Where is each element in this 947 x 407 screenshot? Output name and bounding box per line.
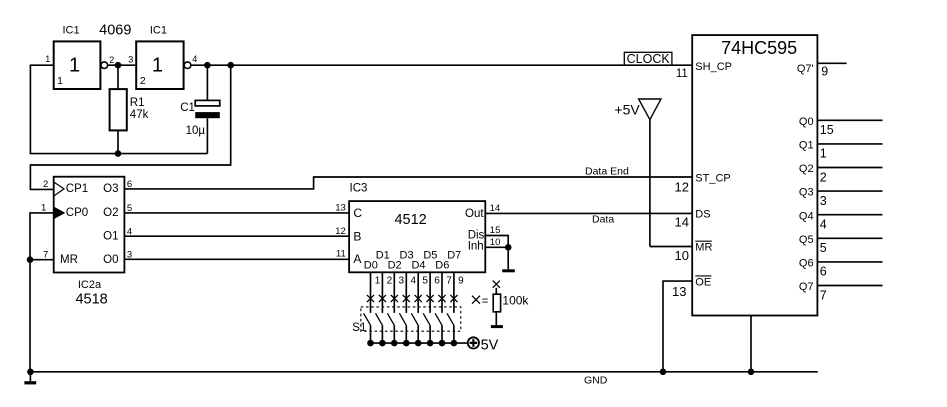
pin name Q7 — [799, 281, 814, 293]
pin number 6 (D5) — [434, 275, 440, 286]
svg-text:4: 4 — [192, 54, 197, 64]
svg-text:Q5: Q5 — [799, 234, 814, 246]
resistor mark x (D3 pulldown) — [403, 295, 410, 302]
wire clock net IC1b output to 74HC595 SH_CP — [191, 64, 692, 66]
svg-text:3: 3 — [399, 275, 405, 286]
svg-text:MR: MR — [695, 242, 712, 254]
node junction 595 GND at ground rail — [748, 369, 755, 376]
pin name Q5 — [799, 234, 814, 246]
label +5V — [614, 102, 640, 118]
74HC595 shift register body — [692, 35, 817, 315]
pin name Out — [465, 208, 484, 220]
switch S1 dashed enclosure — [361, 307, 461, 331]
label IC3 — [350, 182, 368, 194]
wire D3 column lower lead — [405, 325, 407, 343]
svg-text:1: 1 — [375, 275, 381, 286]
pin name Q4 — [799, 210, 814, 222]
svg-text:11: 11 — [336, 249, 346, 260]
pin name CP0 — [66, 207, 88, 219]
resistor mark x (D6 pulldown) — [438, 295, 445, 302]
svg-text:6: 6 — [820, 265, 827, 279]
svg-text:3: 3 — [128, 55, 133, 65]
wire O1 to input B — [124, 235, 349, 237]
pin label D1 — [376, 249, 390, 261]
ground symbol bottom left — [24, 372, 36, 385]
resistor mark x (D5 pulldown) — [427, 295, 434, 302]
pin number 13 (C) — [335, 203, 346, 214]
label 74HC595 — [721, 38, 797, 58]
wire +5V to MR of 74HC595 — [650, 120, 692, 247]
svg-text:2: 2 — [387, 275, 393, 286]
wire O0 to input A — [124, 258, 349, 260]
inverter IC1b output bubble — [184, 62, 191, 69]
wire OE to ground rail — [663, 280, 692, 371]
svg-text:1: 1 — [41, 203, 46, 214]
node junction D6 on +5V rail — [439, 340, 446, 347]
ground symbol at Dis-Inh — [502, 269, 515, 272]
node junction D0 on +5V rail — [367, 340, 374, 347]
svg-text:IC1: IC1 — [150, 25, 167, 37]
pin name O1 — [103, 231, 118, 243]
node junction C1 top on clock net — [204, 62, 211, 69]
pin number 4 (D3) — [410, 275, 416, 286]
node junction Dis-Inh tie — [505, 244, 512, 251]
pin name MR — [60, 254, 78, 266]
svg-text:10: 10 — [675, 248, 689, 263]
svg-text:2: 2 — [140, 75, 146, 87]
pin number 7 (D6) — [446, 275, 452, 286]
inverter IC1b function label 1 — [152, 55, 163, 77]
svg-text:2: 2 — [43, 179, 48, 190]
label IC1 (first inverter) — [62, 25, 79, 37]
svg-text:5: 5 — [422, 275, 428, 286]
wire CP0 MR ground net (left vertical) — [30, 212, 54, 372]
wire Q7 stub — [817, 285, 882, 287]
label IC2a — [78, 279, 102, 291]
switch S1 pole 7 blade — [435, 313, 442, 325]
svg-text:Q7': Q7' — [797, 63, 814, 75]
wire D5 column lower lead — [429, 325, 431, 343]
node junction D7 on +5V rail — [451, 340, 458, 347]
node junction feedback on clock net — [227, 62, 234, 69]
wire D6 column upper lead — [441, 272, 443, 313]
svg-text:B: B — [353, 229, 361, 243]
svg-text:Data: Data — [592, 214, 614, 226]
svg-text:74HC595: 74HC595 — [721, 38, 797, 58]
pin name Q1 — [799, 140, 814, 152]
pin name CP1 — [66, 183, 88, 195]
svg-text:100k: 100k — [502, 293, 529, 307]
pin number 3 (D2) — [399, 275, 405, 286]
svg-text:CLOCK: CLOCK — [627, 52, 671, 66]
svg-text:3: 3 — [820, 194, 827, 208]
svg-text:Q1: Q1 — [799, 140, 814, 152]
wire D5 column upper lead — [429, 272, 431, 313]
svg-text:Q7: Q7 — [799, 281, 814, 293]
label 4512 — [394, 212, 426, 228]
node junction D5 on +5V rail — [427, 340, 434, 347]
wire D4 column lower lead — [417, 325, 419, 343]
node junction OE at ground rail — [660, 369, 667, 376]
inverter IC1a function label 1 — [69, 55, 80, 77]
wire Q4 stub — [817, 214, 882, 216]
inverter IC1a gate number 1 — [57, 75, 63, 87]
net label Data — [592, 214, 614, 226]
svg-text:2: 2 — [109, 55, 114, 65]
pin name Q0 — [799, 116, 814, 128]
wire IC1a output to IC1b input — [108, 64, 137, 66]
svg-text:C: C — [353, 206, 362, 220]
inverter IC1a output bubble — [101, 62, 108, 69]
pin label D4 — [411, 259, 425, 271]
pin number 15 (Q0) — [820, 123, 834, 137]
svg-text:4: 4 — [410, 275, 416, 286]
svg-text:O2: O2 — [103, 207, 118, 219]
svg-text:Data End: Data End — [585, 165, 629, 177]
svg-text:13: 13 — [335, 203, 346, 214]
pin number 13 (OE) — [672, 284, 686, 299]
pin name OE (overline) — [695, 276, 711, 288]
capacitor C1 positive plate — [195, 100, 220, 106]
IC2a 4518 counter body — [54, 177, 125, 273]
pin number 4 (Q4) — [820, 218, 827, 232]
wire D7 column upper lead — [453, 272, 455, 313]
label 4518 — [75, 292, 107, 308]
pin number 10 (MR) — [675, 248, 689, 263]
svg-text:4069: 4069 — [99, 23, 131, 39]
node junction GND rail left end — [27, 369, 34, 376]
+5V supply symbol (circle plus) — [468, 337, 479, 348]
svg-text:7: 7 — [820, 288, 827, 302]
pin number 5 (O2) — [127, 203, 132, 214]
net label Data End — [585, 165, 629, 177]
pin label D3 — [400, 249, 414, 261]
capacitor C1 negative plate — [195, 112, 220, 118]
pin label D7 — [447, 249, 461, 261]
svg-text:Out: Out — [465, 208, 484, 220]
svg-text:4: 4 — [820, 218, 827, 232]
legend x symbol — [472, 296, 480, 304]
resistor mark x (D4 pulldown) — [415, 295, 422, 302]
svg-text:O0: O0 — [103, 254, 118, 266]
pin number 15 (Dis) — [490, 225, 501, 236]
label IC1 (second inverter) — [150, 25, 167, 37]
svg-text:O1: O1 — [103, 231, 118, 243]
node junction D4 on +5V rail — [415, 340, 422, 347]
wire Q5 stub — [817, 237, 882, 239]
svg-text:ST_CP: ST_CP — [695, 172, 730, 184]
svg-text:A: A — [353, 252, 361, 266]
pin number 1 (IC1a input) — [45, 54, 50, 64]
wire D3 column upper lead — [405, 272, 407, 313]
svg-text:SH_CP: SH_CP — [695, 61, 732, 73]
wire Out to DS (Data net) — [485, 212, 692, 214]
wire D0 column lower lead — [370, 325, 372, 343]
pin number 7 (MR) — [43, 250, 48, 261]
wire Q6 stub — [817, 261, 882, 263]
pin number 11 (SH_CP) — [676, 68, 688, 80]
svg-text:O3: O3 — [103, 183, 118, 195]
pin name Q3 — [799, 187, 814, 199]
svg-text:Q4: Q4 — [799, 210, 814, 222]
clock triangle CP0 (filled) — [55, 207, 66, 219]
net label text CLOCK — [627, 52, 671, 66]
node junction D1 on +5V rail — [379, 340, 386, 347]
svg-text:9: 9 — [458, 275, 464, 286]
svg-text:IC1: IC1 — [62, 25, 79, 37]
label 10µ — [186, 125, 206, 137]
capacitor C1 top lead — [206, 65, 208, 100]
inverter IC1a gate body — [54, 41, 101, 89]
wire Q0 stub — [817, 119, 882, 121]
wire inverter1 input feedback net (pin1 to RC rail) — [30, 65, 208, 154]
svg-text:4512: 4512 — [394, 212, 426, 228]
pin number 9 (D7) — [458, 275, 464, 286]
pin number 5 (Q5) — [820, 241, 827, 255]
pin number 2 (D1) — [387, 275, 393, 286]
label S1 — [352, 322, 366, 334]
svg-text:1: 1 — [820, 147, 827, 161]
pin name Q7' — [797, 63, 814, 75]
svg-text:5: 5 — [820, 241, 827, 255]
pin name Q6 — [799, 258, 814, 270]
node junction MR tap — [27, 256, 34, 263]
pin name A — [353, 252, 361, 266]
switch S1 pole 5 blade — [411, 313, 418, 325]
pin name Q2 — [799, 163, 814, 175]
svg-text:OE: OE — [695, 276, 711, 288]
pin number 3 (Q3) — [820, 194, 827, 208]
pin label D2 — [388, 259, 402, 271]
resistor mark x (D7 pulldown) — [450, 295, 457, 302]
svg-text:Inh: Inh — [468, 240, 484, 252]
svg-text:1: 1 — [152, 55, 163, 77]
inverter IC1b gate number 2 — [140, 75, 146, 87]
label 4069 — [99, 23, 131, 39]
ground symbol at 100k — [491, 325, 503, 328]
pin name B — [353, 229, 361, 243]
svg-text:14: 14 — [675, 215, 689, 230]
pin name MR (overline) — [695, 241, 712, 253]
switch S1 pole 1 blade — [364, 313, 371, 325]
pin number 1 (Q1) — [820, 147, 827, 161]
pin label D0 — [364, 259, 378, 271]
wire +5V rail under switches — [371, 342, 468, 344]
pin label D6 — [435, 259, 449, 271]
svg-text:R1: R1 — [130, 97, 145, 109]
node junction D2 on +5V rail — [391, 340, 398, 347]
inverter IC1b gate body — [136, 41, 183, 89]
wire GND rail — [30, 371, 818, 373]
svg-text:IC3: IC3 — [350, 182, 368, 194]
pin number 4 (O1) — [127, 226, 132, 237]
wire D2 column lower lead — [393, 325, 395, 343]
pin number 14 (Out) — [490, 203, 501, 214]
svg-text:12: 12 — [675, 179, 689, 194]
svg-text:D7: D7 — [447, 249, 461, 261]
wire D1 column lower lead — [381, 325, 383, 343]
wire D2 column upper lead — [393, 272, 395, 313]
pin number 10 (Inh) — [490, 237, 501, 248]
resistor mark x (D0 pulldown) — [367, 295, 374, 302]
pin number 3 (O0) — [127, 250, 132, 261]
svg-text:1: 1 — [69, 55, 80, 77]
svg-text:12: 12 — [335, 226, 346, 237]
svg-text:Q0: Q0 — [799, 116, 814, 128]
+5V supply triangle — [639, 99, 661, 120]
node junction D3 on +5V rail — [403, 340, 410, 347]
capacitor C1 bottom lead — [206, 118, 208, 153]
svg-text:1: 1 — [57, 75, 63, 87]
net label GND — [584, 375, 608, 387]
pin name Inh — [468, 240, 484, 252]
wire Q7' stub — [817, 62, 846, 64]
pin name O3 — [103, 183, 118, 195]
pin number 6 (Q6) — [820, 265, 827, 279]
svg-text:+5V: +5V — [614, 102, 640, 118]
pin number 7 (Q7) — [820, 288, 827, 302]
pin number 2 (Q2) — [820, 170, 827, 184]
switch S1 pole 8 blade — [447, 313, 454, 325]
svg-text:MR: MR — [60, 254, 78, 266]
resistor mark x (D2 pulldown) — [391, 295, 398, 302]
svg-text:DS: DS — [695, 209, 710, 221]
svg-text:4518: 4518 — [75, 292, 107, 308]
wire D1 column upper lead — [381, 272, 383, 313]
pin number 4 (IC1b output) — [192, 54, 197, 64]
IC3 4512 selector body — [349, 201, 485, 272]
pin number 1 (CP0) — [41, 203, 46, 214]
pin number 3 (IC1b input) — [128, 55, 133, 65]
node junction R1 top on clock net — [115, 62, 122, 69]
label 5V — [481, 337, 499, 353]
legend resistor mark x above 100k — [493, 281, 500, 288]
pin name O2 — [103, 207, 118, 219]
svg-text:Q3: Q3 — [799, 187, 814, 199]
svg-text:GND: GND — [584, 375, 608, 387]
svg-text:S1: S1 — [352, 322, 366, 334]
svg-text:9: 9 — [821, 65, 828, 79]
pin name Dis — [468, 230, 485, 242]
resistor 100k body — [493, 288, 500, 325]
legend equals sign — [482, 295, 489, 307]
pin number 6 (O3) — [127, 179, 132, 190]
switch S1 pole 6 blade — [423, 313, 430, 325]
pin name C — [353, 206, 362, 220]
wire Q1 stub — [817, 143, 882, 145]
pin name DS — [695, 209, 710, 221]
svg-text:1: 1 — [45, 54, 50, 64]
pin number 5 (D4) — [422, 275, 428, 286]
pin name O0 — [103, 254, 118, 266]
pin number 1 (D0) — [375, 275, 381, 286]
wire feedback clock to CP1 of IC2a — [30, 65, 232, 189]
wire D6 column lower lead — [441, 325, 443, 343]
svg-text:=: = — [482, 295, 489, 307]
pin number 2 (IC1a output) — [109, 55, 114, 65]
svg-text:11: 11 — [676, 68, 688, 80]
pin number 12 (B) — [335, 226, 346, 237]
svg-text:CP0: CP0 — [66, 207, 88, 219]
svg-text:7: 7 — [446, 275, 452, 286]
pin name ST_CP — [695, 172, 730, 184]
pin number 14 (DS) — [675, 215, 689, 230]
clock triangle CP1 (open) — [55, 183, 65, 196]
svg-text:15: 15 — [820, 123, 834, 137]
wire D0 column upper lead — [370, 272, 372, 313]
node junction R1 bottom on RC rail — [115, 150, 122, 157]
svg-text:C1: C1 — [180, 102, 195, 114]
svg-text:10: 10 — [490, 237, 501, 248]
resistor R1 body — [110, 65, 127, 153]
wire 74HC595 GND pin to ground rail — [750, 316, 752, 372]
label 47k — [130, 109, 149, 121]
switch S1 pole 2 blade — [376, 313, 383, 325]
label R1 — [130, 97, 145, 109]
label C1 — [180, 102, 195, 114]
pin number 12 (ST_CP) — [675, 179, 689, 194]
svg-text:14: 14 — [490, 203, 501, 214]
wire O2 to input C — [124, 212, 349, 214]
svg-text:2: 2 — [820, 170, 827, 184]
switch S1 pole 3 blade — [387, 313, 394, 325]
wire D7 column lower lead — [453, 325, 455, 343]
pin number 9 (Q7') — [821, 65, 828, 79]
svg-text:10µ: 10µ — [186, 125, 206, 137]
wire Q3 stub — [817, 190, 882, 192]
pin number 11 (A) — [336, 249, 346, 260]
wire D4 column upper lead — [417, 272, 419, 313]
pin label D5 — [423, 249, 437, 261]
svg-text:IC2a: IC2a — [78, 279, 102, 291]
svg-text:6: 6 — [434, 275, 440, 286]
svg-text:Q6: Q6 — [799, 258, 814, 270]
switch S1 pole 4 blade — [399, 313, 406, 325]
pin name SH_CP — [695, 61, 732, 73]
svg-text:5V: 5V — [481, 337, 499, 353]
svg-text:13: 13 — [672, 284, 686, 299]
resistor mark x (D1 pulldown) — [379, 295, 386, 302]
label 100k — [502, 293, 529, 307]
wire Q2 stub — [817, 167, 882, 169]
pin number 2 (CP1) — [43, 179, 48, 190]
svg-text:CP1: CP1 — [66, 183, 88, 195]
wire Dis Inh tie to ground — [485, 235, 508, 269]
svg-text:47k: 47k — [130, 109, 149, 121]
svg-text:15: 15 — [490, 225, 501, 236]
wire O3 to ST_CP (Data End net) — [124, 177, 692, 190]
net label box CLOCK — [624, 52, 672, 65]
svg-text:Q2: Q2 — [799, 163, 814, 175]
